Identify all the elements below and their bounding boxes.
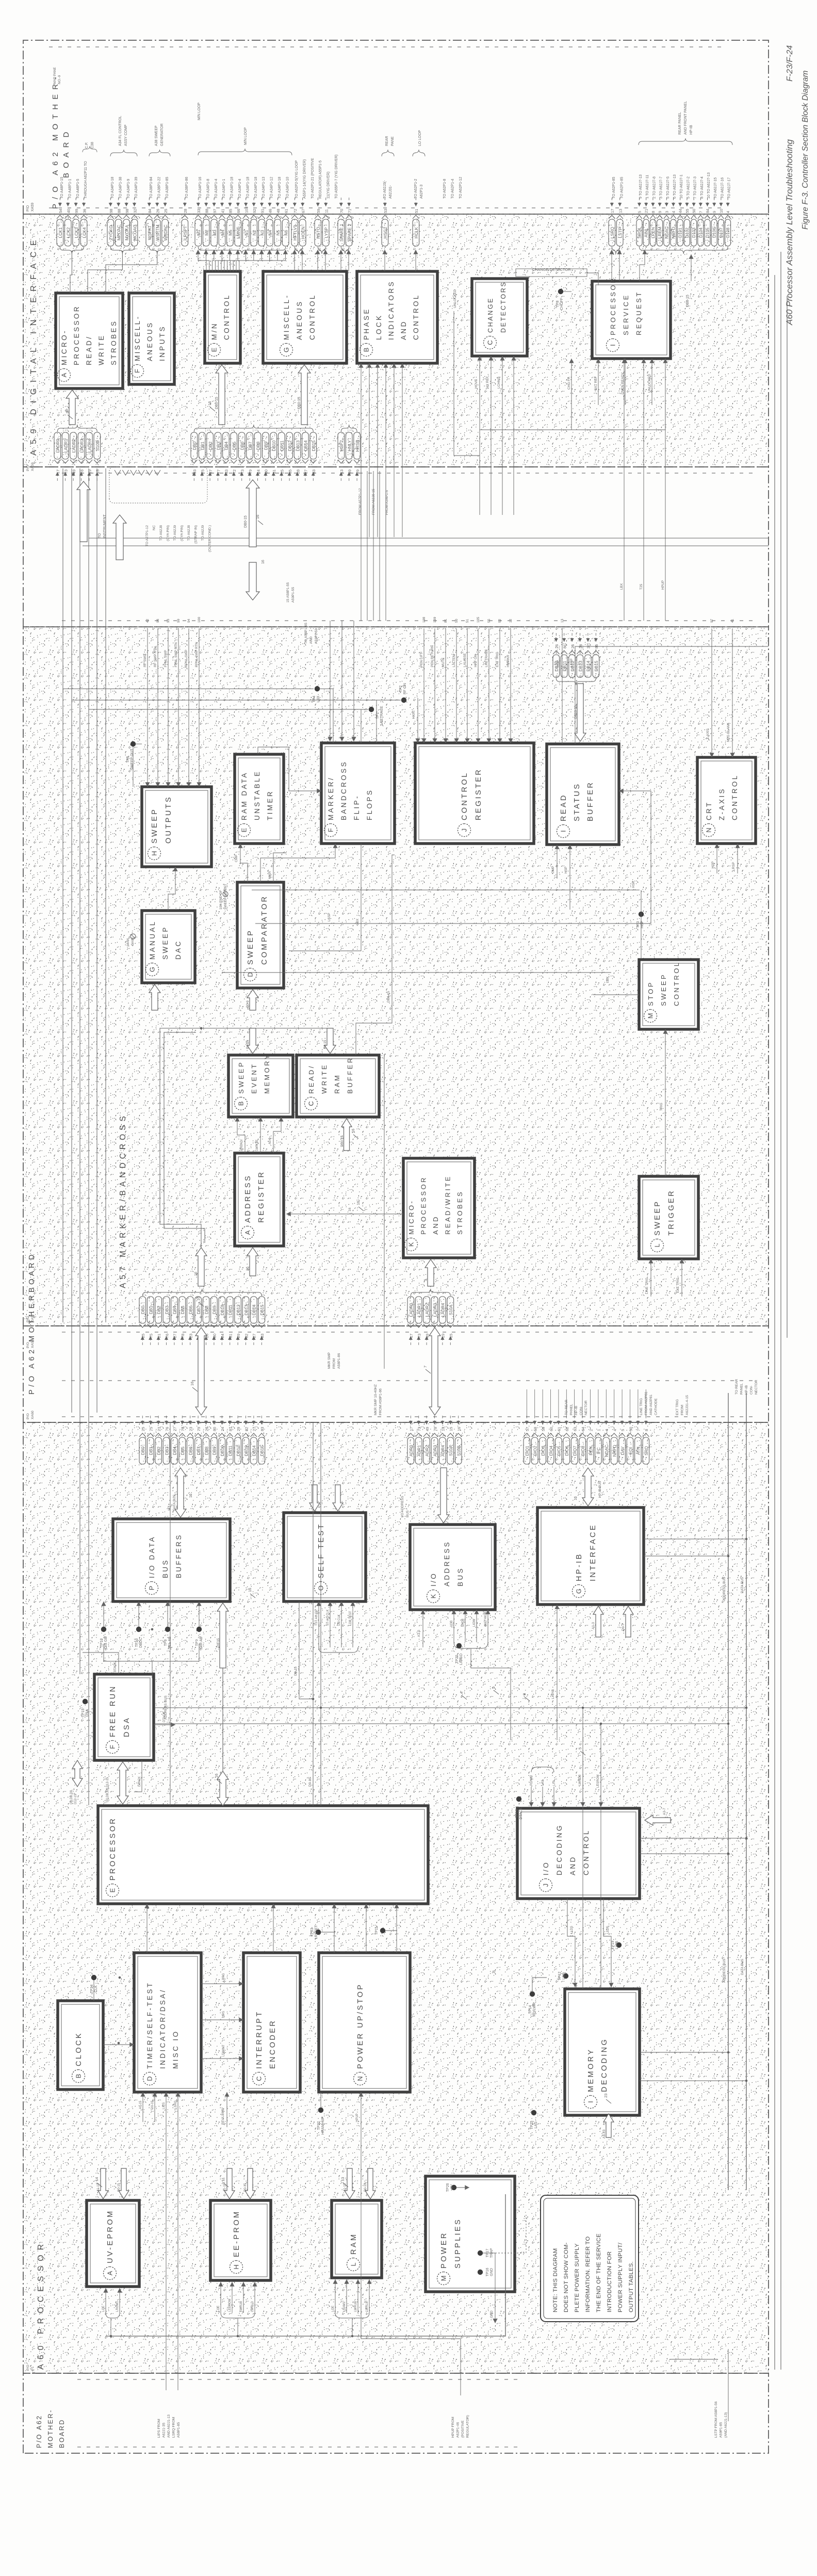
svg-text:TO A55P1-7 (YIG DRIVER): TO A55P1-7 (YIG DRIVER) bbox=[335, 155, 338, 199]
svg-text:LRSPT: LRSPT bbox=[183, 226, 188, 240]
svg-text:(CYA PIN): (CYA PIN) bbox=[167, 525, 170, 541]
svg-text:199: 199 bbox=[433, 617, 437, 623]
test point TP19 LIOB bbox=[616, 1942, 622, 1948]
svg-text:LINE TRIG: LINE TRIG bbox=[640, 1398, 643, 1415]
svg-text:DB8: DB8 bbox=[204, 1447, 209, 1455]
svg-text:DB0-15: DB0-15 bbox=[387, 991, 390, 1002]
svg-text:A59P1-85: A59P1-85 bbox=[720, 2422, 723, 2438]
svg-text:DB13: DB13 bbox=[243, 1304, 249, 1315]
wires I buffer right to boundary bbox=[562, 628, 563, 744]
block M POWER SUPPLIES bbox=[426, 2176, 515, 2292]
svg-text:82: 82 bbox=[244, 1427, 249, 1431]
svg-text:27: 27 bbox=[208, 469, 213, 474]
wire M STOP SWEEP to comparator bbox=[593, 994, 639, 995]
bus rail top y188 bbox=[96, 468, 97, 1413]
svg-text:DB12: DB12 bbox=[287, 440, 292, 451]
svg-text:31: 31 bbox=[272, 469, 276, 474]
wire continuation dashes A60-A57 strip bbox=[62, 1416, 758, 1417]
svg-text:5 TO A62J7-5: 5 TO A62J7-5 bbox=[666, 176, 670, 199]
A60 left boundary wire stubs bbox=[157, 2415, 181, 2438]
svg-text:LEEROM: LEEROM bbox=[228, 2299, 232, 2312]
svg-text:TO A34P1-38: TO A34P1-38 bbox=[119, 177, 122, 199]
svg-text:DB11: DB11 bbox=[280, 441, 285, 451]
big arrow B0-15 into B SWEEP EVENT MEMORY bbox=[247, 1028, 258, 1054]
test point TP5 wire bbox=[136, 743, 142, 744]
bracket under P inputs bbox=[104, 1644, 199, 1661]
svg-text:DIO2: DIO2 bbox=[533, 1446, 538, 1456]
svg-text:BUS: BUS bbox=[406, 1510, 410, 1517]
svg-text:DB5: DB5 bbox=[232, 442, 237, 450]
svg-text:LRAM1: LRAM1 bbox=[343, 2301, 346, 2312]
block J I/O DECODING AND CONTROL bbox=[517, 1808, 640, 1899]
svg-text:DB14: DB14 bbox=[252, 1445, 257, 1456]
svg-text:INTRODUCTION FOR: INTRODUCTION FOR bbox=[607, 2251, 613, 2312]
block F MARKER/BANDCROSS FLIP-FLOPS bbox=[321, 743, 395, 844]
svg-text:NDAC: NDAC bbox=[664, 226, 669, 239]
double arrow DB D12-15 left of F bbox=[72, 1760, 83, 1787]
svg-text:TO: TO bbox=[98, 533, 102, 538]
wire HPUP long bbox=[460, 2339, 461, 2395]
svg-text:DB14: DB14 bbox=[586, 660, 591, 671]
svg-text:MAN: MAN bbox=[126, 938, 130, 946]
svg-text:XA60: XA60 bbox=[31, 1411, 35, 1419]
svg-text:16: 16 bbox=[262, 560, 265, 564]
block C CHANGE DETECTORS bbox=[472, 279, 527, 356]
svg-text:LADR1: LADR1 bbox=[417, 1303, 422, 1317]
wire A1-5 into K bbox=[422, 1610, 423, 1647]
svg-text:9: 9 bbox=[712, 211, 717, 213]
wire TP8 to service request bbox=[563, 291, 571, 292]
svg-text:DB0: DB0 bbox=[192, 442, 197, 450]
svg-text:D: D bbox=[247, 972, 254, 977]
svg-text:H: H bbox=[233, 2264, 240, 2269]
svg-text:10K END OF: 10K END OF bbox=[219, 890, 223, 910]
svg-text:72: 72 bbox=[293, 209, 298, 213]
svg-text:DB5: DB5 bbox=[180, 1447, 185, 1455]
block E PROCESSOR bbox=[98, 1806, 428, 1904]
svg-text:DB13: DB13 bbox=[295, 440, 300, 451]
svg-text:HP-IB: HP-IB bbox=[690, 125, 693, 135]
svg-text:E: E bbox=[240, 828, 248, 832]
svg-text:BTACK: BTACK bbox=[114, 1662, 117, 1672]
svg-text:AINL: AINL bbox=[644, 228, 649, 237]
svg-text:LRSP: LRSP bbox=[732, 862, 736, 871]
svg-text:COMPARATOR: COMPARATOR bbox=[260, 895, 269, 965]
brace A34 FL control bbox=[110, 150, 137, 156]
svg-text:D0-15: D0-15 bbox=[118, 2183, 121, 2192]
svg-text:F: F bbox=[327, 828, 335, 832]
label P/O XA59 top bbox=[26, 203, 35, 212]
svg-text:EXT TRIG: EXT TRIG bbox=[676, 1277, 680, 1293]
svg-text:BUFFERS: BUFFERS bbox=[175, 1533, 183, 1578]
svg-text:TP12: TP12 bbox=[558, 1972, 562, 1981]
connector M1-M6 N1-N6 group bbox=[195, 198, 289, 254]
svg-text:LALIGSE: LALIGSE bbox=[463, 653, 467, 667]
svg-text:DB2: DB2 bbox=[208, 442, 213, 450]
svg-text:CMP: CMP bbox=[235, 855, 238, 862]
svg-text:GAIN: GAIN bbox=[131, 937, 135, 946]
svg-text:READ/WRITE: READ/WRITE bbox=[444, 1175, 452, 1235]
svg-text:LALTEN: LALTEN bbox=[452, 655, 456, 667]
svg-text:TO A48P1-5: TO A48P1-5 bbox=[76, 179, 80, 199]
svg-text:LCK4: LCK4 bbox=[81, 227, 87, 238]
svg-text:5 TO A62J7-2: 5 TO A62J7-2 bbox=[687, 176, 690, 199]
svg-text:MISCELL-: MISCELL- bbox=[134, 315, 141, 361]
svg-text:LOE: LOE bbox=[217, 2306, 220, 2312]
svg-text:LWRL8: LWRL8 bbox=[366, 2302, 369, 2312]
svg-text:DB CLK: DB CLK bbox=[338, 1614, 341, 1626]
wires LWRUB LESROM into J bbox=[582, 1756, 583, 1807]
block P I/O DATA BUS BUFFERS bbox=[113, 1519, 230, 1601]
svg-text:TO A62P1-21 (POSITIVE: TO A62P1-21 (POSITIVE bbox=[311, 158, 315, 199]
wires top boundary into H SWEEP OUTPUTS bbox=[147, 628, 148, 787]
svg-text:42: 42 bbox=[146, 619, 150, 623]
bus width tick marks bbox=[192, 1387, 198, 1391]
svg-text:REAR PANEL: REAR PANEL bbox=[678, 112, 682, 135]
wire TP14 to memory decoding bbox=[532, 1978, 547, 1991]
extra top strip fine print rows upper bbox=[53, 67, 61, 84]
svg-text:DB10-15: DB10-15 bbox=[574, 705, 578, 719]
wires J CONTROL REGISTER to top boundary bbox=[423, 628, 424, 743]
svg-text:TO A62P1-4: TO A62P1-4 bbox=[451, 179, 454, 199]
svg-text:NOTE: THIS DIAGRAM: NOTE: THIS DIAGRAM bbox=[552, 2248, 559, 2312]
test point TP18 DTACK bbox=[516, 1796, 521, 1802]
svg-text:29: 29 bbox=[236, 1427, 241, 1431]
block B CLOCK bbox=[58, 2001, 103, 2089]
labels TO rear panel HP-IB bbox=[565, 1400, 588, 1415]
svg-text:29: 29 bbox=[355, 469, 360, 474]
svg-text:D: D bbox=[146, 2076, 154, 2081]
wires LINE TRIG EXT TRIG into L bbox=[650, 1259, 651, 1297]
svg-text:WSPAT: WSPAT bbox=[147, 225, 152, 240]
svg-text:M/N LOOP: M/N LOOP bbox=[198, 102, 201, 120]
svg-text:TO REAR: TO REAR bbox=[735, 1379, 739, 1395]
svg-text:M4: M4 bbox=[220, 230, 225, 236]
svg-text:CHG FF: CHG FF bbox=[567, 377, 571, 390]
svg-text:ENCODER: ENCODER bbox=[269, 2019, 277, 2069]
svg-text:LAS: LAS bbox=[534, 2121, 538, 2129]
svg-text:P1: P1 bbox=[31, 2366, 35, 2371]
svg-text:TO A62J7-16: TO A62J7-16 bbox=[721, 177, 724, 199]
wire clock to D timer bbox=[103, 2044, 134, 2045]
block G HP-IB INTERFACE bbox=[537, 1508, 644, 1605]
svg-text:CONTROL: CONTROL bbox=[673, 961, 680, 1006]
svg-text:HP-IB: HP-IB bbox=[575, 1552, 583, 1581]
svg-text:A59P1-55: A59P1-55 bbox=[291, 587, 295, 603]
svg-text:CON-: CON- bbox=[750, 1386, 754, 1395]
svg-text:5: 5 bbox=[578, 1747, 582, 1749]
svg-text:HSP: HSP bbox=[711, 862, 715, 868]
svg-text:17: 17 bbox=[409, 1334, 414, 1338]
svg-text:WRITE: WRITE bbox=[320, 1063, 328, 1094]
svg-text:57: 57 bbox=[525, 1427, 530, 1431]
svg-text:TO A34P1-4: TO A34P1-4 bbox=[238, 179, 242, 199]
svg-text:M2: M2 bbox=[204, 230, 209, 236]
svg-text:LYSP: LYSP bbox=[324, 227, 329, 238]
brace A38 sweep generator bbox=[149, 150, 170, 156]
svg-text:ASSY COMP: ASSY COMP bbox=[124, 124, 128, 146]
svg-text:LOCK: LOCK bbox=[375, 314, 383, 340]
svg-text:TP23: TP23 bbox=[311, 1928, 314, 1937]
processor bus arrows out right side bbox=[217, 1771, 228, 1806]
svg-text:HRF ON: HRF ON bbox=[474, 654, 478, 667]
svg-text:MKR: MKR bbox=[268, 871, 272, 879]
svg-text:8 TO A62J7-4: 8 TO A62J7-4 bbox=[700, 176, 704, 199]
strip vertical bus line x3950 bbox=[89, 538, 769, 539]
panel A57 MARKER/BANDCROSS bbox=[23, 627, 769, 1326]
svg-text:ADDRESS BUS: ADDRESS BUS bbox=[723, 1958, 726, 1983]
svg-text:98: 98 bbox=[109, 209, 113, 213]
svg-text:LADR3: LADR3 bbox=[79, 439, 84, 452]
block C READ/WRITE RAM BUFFER bbox=[297, 1055, 379, 1117]
svg-text:1 TO A62J7-11: 1 TO A62J7-11 bbox=[646, 175, 649, 199]
svg-text:LSRQ FROM: LSRQ FROM bbox=[172, 2417, 176, 2438]
svg-text:TO A62P1-2: TO A62P1-2 bbox=[414, 179, 418, 199]
svg-text:M/N LOOP: M/N LOOP bbox=[244, 127, 248, 145]
wire continuation dashes top motherboard strip bbox=[49, 207, 722, 208]
svg-text:DB15: DB15 bbox=[594, 660, 599, 671]
memory control bus line bbox=[106, 2194, 505, 2336]
svg-text:INDICATORS: INDICATORS bbox=[387, 280, 395, 340]
svg-text:63: 63 bbox=[573, 1427, 578, 1431]
svg-text:I: I bbox=[609, 344, 617, 346]
svg-text:M3: M3 bbox=[212, 230, 217, 236]
block K I/O ADDRESS BUS bbox=[410, 1525, 495, 1610]
svg-text:TO A34P1-12: TO A34P1-12 bbox=[270, 177, 274, 199]
wire LCK bracket to block A bbox=[71, 250, 72, 251]
svg-text:(CYA PIN): (CYA PIN) bbox=[181, 525, 184, 541]
svg-text:TO A62J3(-: TO A62J3(- bbox=[383, 180, 387, 199]
test point TP26 +5V bbox=[451, 2185, 456, 2190]
svg-text:M: M bbox=[440, 2276, 448, 2281]
svg-text:RAM: RAM bbox=[350, 2233, 358, 2255]
svg-text:SWEEP: SWEEP bbox=[247, 929, 255, 965]
svg-text:OUTPUT TABLES.: OUTPUT TABLES. bbox=[628, 2261, 634, 2312]
wires processor bottom to D C N blocks bbox=[146, 1904, 148, 1953]
wire C RAM buffer to right bbox=[356, 855, 395, 1055]
svg-text:A62P1-46: A62P1-46 bbox=[456, 2422, 460, 2438]
svg-text:LHPIB: LHPIB bbox=[551, 1689, 555, 1699]
big arrow DB into A57 address logic bbox=[195, 1248, 207, 1286]
svg-text:MISCELL-: MISCELL- bbox=[283, 294, 290, 340]
svg-text:P/O A62: P/O A62 bbox=[36, 2415, 43, 2448]
svg-text:PLETE POWER SUPPLY: PLETE POWER SUPPLY bbox=[574, 2243, 580, 2312]
bus rail bottom y1502 bbox=[774, 275, 775, 2370]
svg-text:SWEEP: SWEEP bbox=[237, 1061, 245, 1094]
svg-text:69: 69 bbox=[348, 469, 352, 474]
svg-text:DIO3: DIO3 bbox=[541, 1446, 546, 1456]
svg-text:RD/WR: RD/WR bbox=[530, 1775, 533, 1786]
svg-text:RAM DATA: RAM DATA bbox=[240, 771, 248, 820]
block C INTERRUPT ENCODER bbox=[243, 1953, 300, 2092]
big arrow DB10-15 into I READ STATUS BUFFER bbox=[575, 684, 586, 741]
svg-text:TO A34P1-13: TO A34P1-13 bbox=[262, 177, 266, 199]
svg-text:17: 17 bbox=[610, 209, 615, 213]
svg-text:PANE: PANE bbox=[391, 136, 395, 146]
svg-text:MEMORY: MEMORY bbox=[263, 1053, 271, 1094]
svg-text:ADDRESS BUS: ADDRESS BUS bbox=[723, 1577, 726, 1601]
panel P/O A62 motherboard strip A57-A59 bbox=[23, 467, 769, 627]
svg-text:AND FRONT PANEL: AND FRONT PANEL bbox=[684, 101, 688, 135]
big arrow TO INSTRUMENT bbox=[77, 481, 90, 542]
svg-text:51: 51 bbox=[466, 619, 469, 623]
wires crossing strip A57-A59 bbox=[361, 471, 362, 621]
svg-text:198: 198 bbox=[422, 617, 426, 623]
big arrow 16 into ADDRESS REGISTER bbox=[247, 1248, 258, 1276]
svg-text:98: 98 bbox=[125, 209, 129, 213]
svg-text:D0-15: D0-15 bbox=[217, 1638, 220, 1647]
wire LBX from F flops to left bbox=[289, 844, 361, 951]
svg-text:HSTO: HSTO bbox=[316, 226, 321, 238]
svg-text:15: 15 bbox=[449, 1334, 453, 1338]
svg-text:16: 16 bbox=[348, 1207, 352, 1211]
svg-text:7: 7 bbox=[636, 1429, 641, 1431]
address bus from processor bbox=[170, 1422, 171, 1806]
note box bbox=[541, 2195, 639, 2322]
svg-text:THROUGH A62P11 TO: THROUGH A62P11 TO bbox=[84, 161, 88, 199]
svg-text:46: 46 bbox=[268, 209, 273, 213]
svg-text:26: 26 bbox=[156, 209, 160, 213]
svg-text:B: B bbox=[75, 2074, 83, 2079]
svg-text:IFC: IFC bbox=[596, 1447, 601, 1454]
svg-text:75: 75 bbox=[149, 1334, 154, 1338]
svg-text:STOP: STOP bbox=[647, 981, 655, 1006]
svg-text:I/O: I/O bbox=[168, 1506, 171, 1511]
svg-text:LIOGO: LIOGO bbox=[460, 1653, 463, 1665]
svg-text:TO A34P1-10: TO A34P1-10 bbox=[286, 177, 289, 199]
svg-text:BANDCROSS: BANDCROSS bbox=[340, 760, 348, 820]
svg-text:P/O A62 MOTHERBOARD: P/O A62 MOTHERBOARD bbox=[28, 1252, 36, 1395]
block K MICRO-PROCESSOR AND READ/WRITE STROBES bbox=[403, 1158, 475, 1258]
block H EE-PROM bbox=[210, 2200, 271, 2280]
svg-text:D102: D102 bbox=[684, 228, 690, 238]
svg-text:FREE RUN: FREE RUN bbox=[109, 1685, 117, 1737]
svg-text:DIO1: DIO1 bbox=[525, 1446, 530, 1456]
wires CHG FF / EXT REF / OVEN READY / UNLOCKED into I block bbox=[571, 359, 572, 405]
svg-text:LLDS: LLDS bbox=[607, 1926, 610, 1934]
svg-text:DB8: DB8 bbox=[204, 1306, 209, 1315]
wire TP3 junction bbox=[641, 890, 642, 958]
svg-text:DB3: DB3 bbox=[164, 1447, 169, 1455]
svg-text:A60 Processor Assembly Level T: A60 Processor Assembly Level Troubleshoo… bbox=[785, 139, 794, 326]
svg-text:DETECTORS: DETECTORS bbox=[500, 281, 507, 333]
wires J to memory decoding LLDS LUDS bbox=[567, 1899, 575, 1987]
svg-text:F: F bbox=[134, 369, 141, 373]
svg-text:INSTRUMENT: INSTRUMENT bbox=[103, 514, 107, 538]
svg-text:13: 13 bbox=[339, 469, 344, 474]
svg-text:41: 41 bbox=[731, 619, 734, 623]
svg-text:CONTROL: CONTROL bbox=[582, 1829, 590, 1875]
svg-text:11: 11 bbox=[324, 209, 329, 213]
svg-text:LSSP: LSSP bbox=[328, 913, 331, 921]
svg-text:J: J bbox=[461, 829, 468, 832]
svg-text:25: 25 bbox=[164, 209, 168, 213]
test point TP2 RF ON bbox=[401, 698, 406, 703]
svg-text:4: 4 bbox=[613, 1429, 617, 1431]
wire A0-9 address register to memory bbox=[273, 1117, 281, 1153]
svg-text:I/O DATA: I/O DATA bbox=[148, 1535, 156, 1578]
svg-text:ST-AG CLK: ST-AG CLK bbox=[326, 1610, 330, 1626]
svg-text:TO A34P1-4: TO A34P1-4 bbox=[215, 179, 218, 199]
svg-text:LSSP: LSSP bbox=[570, 658, 574, 667]
svg-text:44: 44 bbox=[678, 209, 683, 213]
test point TP22 HRAMHUP bbox=[318, 2108, 323, 2113]
svg-text:TO A62J8: TO A62J8 bbox=[187, 525, 191, 541]
big arrow IF instrument second bbox=[113, 515, 126, 560]
svg-text:C: C bbox=[486, 340, 494, 345]
svg-text:7 TO A62J7-3: 7 TO A62J7-3 bbox=[694, 176, 697, 199]
labels motherboard destinations for LCK bbox=[60, 161, 88, 199]
block G MANUAL SWEEP DAC bbox=[142, 911, 195, 983]
wire J up rails bbox=[640, 1853, 728, 1854]
svg-text:TP7: TP7 bbox=[195, 1639, 199, 1646]
svg-text:SERVICE: SERVICE bbox=[622, 294, 630, 335]
labels P/O XA59 bottom strip bbox=[26, 462, 35, 471]
svg-text:36: 36 bbox=[82, 209, 87, 213]
labels motherboard HSG2 bbox=[383, 180, 393, 199]
svg-text:DB11: DB11 bbox=[228, 1305, 233, 1316]
svg-text:16: 16 bbox=[214, 1774, 219, 1778]
block A UV-EPROM bbox=[87, 2200, 139, 2287]
svg-text:LBRG: LBRG bbox=[222, 1973, 225, 1982]
svg-text:4: 4 bbox=[604, 1429, 609, 1431]
svg-text:E: E bbox=[210, 347, 218, 352]
test point TP8 CHOFF bbox=[558, 289, 563, 294]
svg-text:BUS: BUS bbox=[456, 1567, 464, 1586]
wire WRDAC bracket from block A bbox=[106, 251, 157, 293]
test point TP11 bbox=[380, 1928, 385, 1933]
svg-text:PROCESSOR: PROCESSOR bbox=[609, 277, 617, 335]
svg-text:12: 12 bbox=[509, 619, 513, 623]
svg-text:HPUP: HPUP bbox=[661, 580, 665, 590]
block F MISCELL-ANEOUS INPUTS bbox=[129, 293, 174, 384]
svg-text:AND: AND bbox=[309, 637, 313, 644]
svg-text:MARKER/: MARKER/ bbox=[327, 776, 335, 820]
bus rail top y205 bbox=[105, 468, 106, 1322]
svg-text:P/O: P/O bbox=[26, 1413, 30, 1419]
svg-text:76: 76 bbox=[165, 1334, 169, 1338]
svg-text:G: G bbox=[575, 1589, 583, 1594]
svg-text:FROM: FROM bbox=[681, 1405, 684, 1415]
svg-text:ADR2: ADR2 bbox=[424, 1445, 430, 1457]
wires processor service request to LSRQ LSTP bbox=[611, 250, 612, 281]
svg-text:A59P1-59: A59P1-59 bbox=[315, 628, 318, 644]
svg-text:82: 82 bbox=[244, 1334, 249, 1338]
svg-text:A62P1-3: A62P1-3 bbox=[420, 185, 423, 199]
label P/O XA57 left bbox=[26, 1314, 35, 1322]
svg-text:8: 8 bbox=[651, 211, 656, 213]
test point TP5 SWEEP OUT bbox=[130, 741, 136, 747]
labels LS8P1-55 bbox=[286, 582, 295, 603]
connector LSRQ LSTP bbox=[609, 198, 623, 254]
svg-text:D0-15: D0-15 bbox=[244, 2183, 247, 2192]
wire continuation dashes A60 left boundary bbox=[77, 2379, 521, 2380]
svg-text:WSPTM: WSPTM bbox=[155, 224, 160, 240]
svg-text:TO A38P1-85: TO A38P1-85 bbox=[166, 177, 169, 199]
svg-text:4: 4 bbox=[726, 211, 730, 213]
svg-text:78: 78 bbox=[79, 469, 84, 474]
wires HP-IB pills through strip bbox=[526, 1389, 527, 1417]
svg-text:51: 51 bbox=[414, 209, 419, 213]
svg-text:NDAC: NDAC bbox=[604, 1445, 609, 1457]
wire LHPIB into G bbox=[557, 1605, 558, 1740]
svg-text:INFORMATION. REFER TO: INFORMATION. REFER TO bbox=[585, 2236, 591, 2312]
label P/O P1 bbox=[26, 2364, 35, 2371]
svg-text:4: 4 bbox=[459, 1692, 464, 1694]
svg-text:DAV: DAV bbox=[620, 1446, 625, 1455]
svg-text:HKR: HKR bbox=[412, 711, 416, 719]
svg-text:LWRITE: LWRITE bbox=[256, 1140, 259, 1151]
